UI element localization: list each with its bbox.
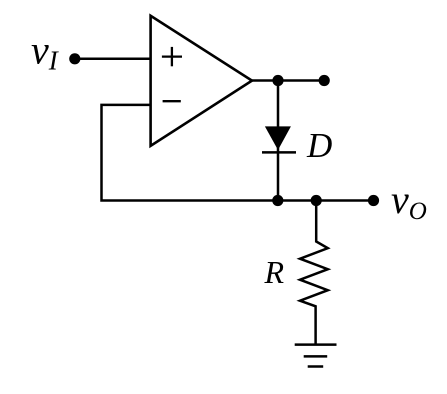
svg-text:vI: vI [31, 28, 60, 76]
svg-text:D: D [306, 126, 332, 165]
svg-text:R: R [264, 254, 285, 290]
svg-text:vO: vO [391, 177, 427, 225]
